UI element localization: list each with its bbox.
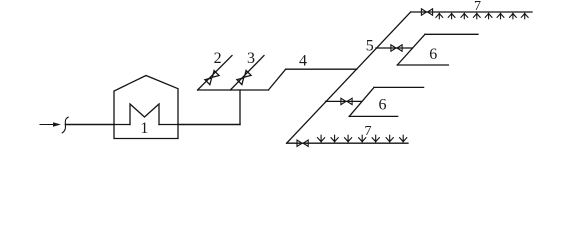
valve 3 (safety valve) (237, 70, 251, 84)
valve on branch 6 (341, 98, 352, 104)
wire: inlet pipe to heater (65, 124, 114, 126)
valve on branch 5 (391, 45, 402, 51)
wire: diagonal branch of valve 3 (230, 56, 264, 91)
wire: diagonal branch of valve 2 (198, 56, 232, 91)
wire: pipe inside heater right (159, 124, 178, 126)
wire: lower manifold diagonal (349, 87, 374, 116)
spray nozzles on top header (8, pointing up) (436, 12, 528, 19)
svg-text:6: 6 (379, 97, 387, 114)
svg-text:4: 4 (299, 53, 307, 70)
wire: lower manifold bottom line (349, 115, 398, 117)
wire: lower manifold top line (374, 86, 424, 88)
svg-text:1: 1 (140, 120, 148, 137)
valve 2 (safety valve) (205, 71, 219, 85)
wire: line 4 horizontal (286, 68, 357, 70)
svg-text:3: 3 (247, 50, 255, 67)
wire: upper manifold top line 6 (425, 33, 478, 35)
wire: valve header (198, 89, 269, 91)
inlet flow arrow (40, 122, 61, 126)
wire: elbow from header up to line 4 (268, 69, 285, 90)
svg-text:6: 6 (429, 46, 437, 63)
wire: upper manifold diagonal (397, 34, 425, 65)
valve on top spray header (421, 9, 432, 15)
pipe break symbol (62, 117, 68, 133)
wire: pipe inside heater left (114, 124, 130, 126)
spray nozzles on bottom header (7, pointing down) (318, 135, 407, 143)
wire: branch 5 horizontal (376, 47, 412, 49)
heater U1 outline (house shape) (114, 76, 178, 139)
svg-text:7: 7 (474, 0, 481, 14)
wire: bottom spray header (287, 142, 408, 144)
svg-text:7: 7 (365, 124, 372, 139)
svg-text:5: 5 (366, 38, 374, 55)
wire: top spray header (411, 11, 532, 13)
wire: upper manifold bottom line (397, 64, 448, 66)
valve on bottom spray header (297, 140, 308, 146)
svg-text:2: 2 (214, 50, 222, 67)
wire: vertical pipe up to valve header (239, 90, 241, 125)
wire: pipe heater to riser base (178, 124, 240, 126)
heater M element (130, 104, 159, 125)
wire: main riser diagonal (287, 12, 411, 143)
wire: branch 6 horizontal (326, 100, 363, 102)
